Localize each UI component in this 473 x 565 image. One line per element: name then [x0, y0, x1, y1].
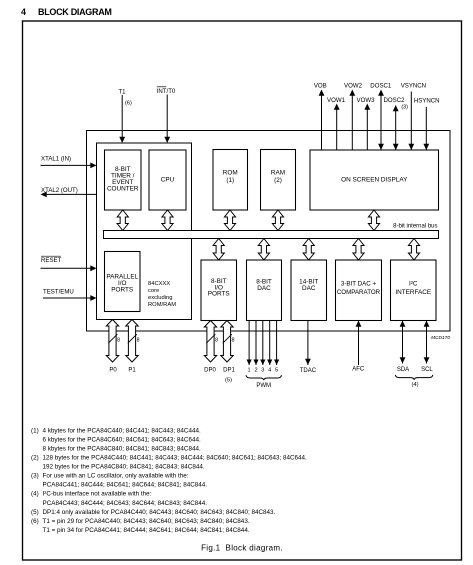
svg-text:(1): (1) — [31, 427, 39, 434]
svg-text:Fig.1 Block diagram.: Fig.1 Block diagram. — [201, 544, 283, 553]
svg-text:VOW1: VOW1 — [327, 97, 346, 104]
svg-text:P1: P1 — [128, 368, 136, 374]
svg-text:2: 2 — [254, 368, 257, 374]
svg-text:(1): (1) — [226, 177, 234, 184]
svg-text:RESET: RESET — [41, 257, 62, 264]
svg-text:DP1:4 only available for PCA84: DP1:4 only available for PCA84C440; 84C4… — [43, 509, 276, 516]
svg-text:PORTS: PORTS — [111, 287, 133, 294]
svg-text:5: 5 — [275, 368, 278, 374]
svg-text:TDAC: TDAC — [300, 368, 317, 374]
svg-text:3-BIT DAC +: 3-BIT DAC + — [341, 281, 377, 288]
svg-text:(5): (5) — [225, 378, 232, 384]
svg-text:T1: T1 — [118, 89, 126, 96]
svg-text:VOW3: VOW3 — [357, 97, 376, 104]
svg-text:8: 8 — [117, 338, 120, 344]
svg-text:(2): (2) — [274, 177, 282, 184]
svg-text:BLOCK DIAGRAM: BLOCK DIAGRAM — [38, 7, 112, 17]
svg-text:ROM: ROM — [223, 170, 238, 177]
svg-text:XTAL2 (OUT): XTAL2 (OUT) — [41, 187, 78, 194]
svg-text:INTERFACE: INTERFACE — [395, 289, 431, 296]
svg-text:DOSC2: DOSC2 — [384, 97, 406, 104]
svg-text:3: 3 — [261, 368, 264, 374]
svg-text:(3): (3) — [401, 105, 408, 111]
svg-text:DAC: DAC — [302, 285, 316, 292]
svg-text:(6): (6) — [125, 101, 132, 107]
svg-text:INT/T0: INT/T0 — [157, 88, 176, 95]
svg-text:T1 = pin 29 for PCA84C440; 84C: T1 = pin 29 for PCA84C440; 84C443; 84C64… — [43, 518, 250, 525]
svg-text:TEST/EMU: TEST/EMU — [43, 289, 74, 296]
svg-text:AFC: AFC — [352, 367, 365, 373]
svg-text:CPU: CPU — [161, 177, 175, 184]
svg-text:PCA84C441; 84C444; 84C641; 84C: PCA84C441; 84C444; 84C641; 84C644; 84C84… — [43, 482, 208, 489]
svg-text:core: core — [148, 288, 159, 294]
svg-text:DOSC1: DOSC1 — [370, 83, 392, 90]
svg-text:4 kbytes for the PCA84C440; 84: 4 kbytes for the PCA84C440; 84C441; 84C4… — [43, 427, 201, 434]
svg-text:6 kbytes for the PCA84C640; 84: 6 kbytes for the PCA84C640; 84C641; 84C6… — [43, 436, 201, 443]
svg-text:DP0: DP0 — [204, 368, 216, 374]
svg-text:I²C: I²C — [409, 281, 418, 288]
svg-text:VOB: VOB — [314, 83, 327, 90]
svg-text:ROM/RAM: ROM/RAM — [148, 302, 176, 308]
svg-text:(3): (3) — [31, 473, 39, 480]
svg-text:VSYNCN: VSYNCN — [401, 83, 426, 90]
svg-text:PWM: PWM — [256, 383, 271, 389]
svg-text:HSYNCN: HSYNCN — [414, 98, 440, 105]
svg-text:8 kbytes for the PCA84C840; 84: 8 kbytes for the PCA84C840; 84C841; 84C8… — [43, 445, 201, 452]
svg-text:COMPARATOR: COMPARATOR — [337, 289, 381, 296]
svg-text:8: 8 — [137, 338, 140, 344]
svg-text:excluding: excluding — [148, 295, 173, 301]
svg-text:T1 = pin 34 for PCA84C441; 84C: T1 = pin 34 for PCA84C441; 84C444; 84C64… — [43, 527, 250, 534]
svg-text:4: 4 — [21, 7, 26, 17]
svg-text:8-bit internal bus: 8-bit internal bus — [393, 224, 437, 230]
svg-text:PCA84C443; 84C444; 84C643; 84C: PCA84C443; 84C444; 84C643; 84C644; 84C84… — [43, 500, 208, 507]
svg-text:For use with an LC oscillator,: For use with an LC oscillator, only avai… — [43, 473, 189, 480]
svg-text:RAM: RAM — [271, 170, 285, 177]
svg-text:COUNTER: COUNTER — [107, 186, 139, 193]
svg-text:(6): (6) — [31, 518, 39, 525]
svg-text:SDA: SDA — [397, 367, 409, 373]
svg-text:XTAL1 (IN): XTAL1 (IN) — [41, 156, 71, 163]
svg-text:DAC: DAC — [257, 285, 271, 292]
svg-text:(5): (5) — [31, 509, 39, 516]
svg-text:(2): (2) — [31, 455, 39, 462]
svg-text:128 bytes for the PCA84C440; 8: 128 bytes for the PCA84C440; 84C441; 84C… — [43, 455, 308, 462]
svg-text:1: 1 — [248, 368, 251, 374]
svg-text:P0: P0 — [109, 368, 117, 374]
svg-text:MCD170: MCD170 — [431, 335, 450, 341]
svg-text:(4): (4) — [411, 382, 418, 388]
svg-text:84CXXX: 84CXXX — [148, 281, 170, 287]
svg-text:ON SCREEN DISPLAY: ON SCREEN DISPLAY — [341, 176, 408, 183]
svg-text:I²C-bus interface not availabl: I²C-bus interface not available with the… — [43, 491, 152, 498]
svg-text:8: 8 — [232, 338, 235, 344]
svg-text:4: 4 — [268, 368, 271, 374]
svg-text:PORTS: PORTS — [208, 291, 230, 298]
svg-text:192 bytes for the PCA84C840; 8: 192 bytes for the PCA84C840; 84C841; 84C… — [43, 464, 205, 471]
svg-text:DP1: DP1 — [223, 368, 235, 374]
svg-text:SCL: SCL — [421, 367, 433, 373]
svg-text:8: 8 — [215, 338, 218, 344]
svg-text:(4): (4) — [31, 491, 39, 498]
svg-text:VOW2: VOW2 — [344, 83, 363, 90]
